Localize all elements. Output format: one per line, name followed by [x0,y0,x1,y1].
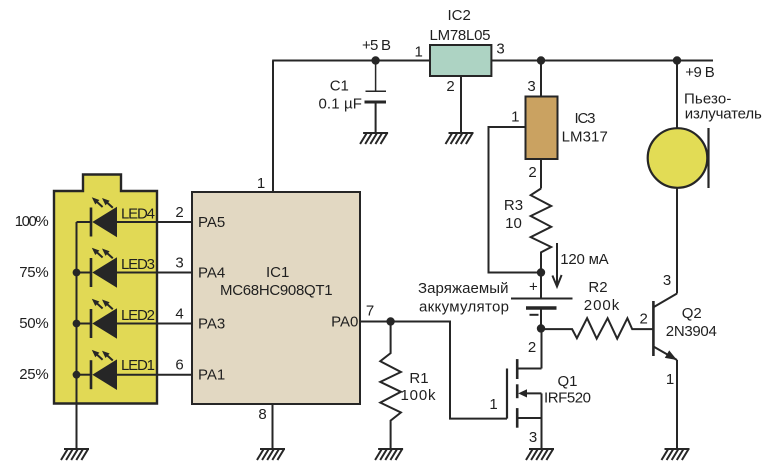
piezo bar [707,128,709,188]
wire cathode rail [76,222,78,449]
IC3 LM317 box [526,97,558,160]
svg-text:3: 3 [175,255,183,272]
svg-text:R3: R3 [504,197,523,214]
ground Q1 [526,449,554,460]
wire LED2 to PA3 [117,323,192,325]
wire IC1 pin1 to +5V rail [272,61,274,193]
svg-text:IC2: IC2 [448,7,471,24]
svg-text:LED2: LED2 [121,307,155,324]
wire battery minus to node [540,308,542,329]
resistor R2 [541,318,653,339]
wire junction to battery plus plate [540,273,542,299]
svg-text:1: 1 [666,371,674,388]
svg-text:2: 2 [446,78,454,95]
wire rail to IC3 pin3 [540,61,542,97]
wire rail to piezo [676,61,678,129]
svg-text:120 мА: 120 мА [560,251,609,268]
svg-text:1: 1 [415,44,423,61]
svg-text:излучатель: излучатель [685,106,762,123]
wire IC3 pin1 loop to battery plus [489,127,542,273]
svg-text:+: + [529,279,538,296]
svg-text:IC3: IC3 [575,110,596,127]
svg-text:LED3: LED3 [121,256,155,273]
rechargeable battery symbol [511,299,573,309]
svg-text:75%: 75% [19,264,48,281]
ground Q2 [662,449,690,460]
node LED3 junction [73,269,81,277]
node battery minus junction [537,324,545,332]
node IC3 top junction [537,56,545,64]
svg-text:4: 4 [175,306,183,323]
node R1 junction [386,317,394,325]
svg-text:0.1 µF: 0.1 µF [318,96,362,113]
node battery plus junction [537,268,545,276]
svg-text:LM317: LM317 [562,129,608,146]
svg-text:200k: 200k [584,297,620,314]
svg-text:PA5: PA5 [198,214,225,231]
svg-text:PA3: PA3 [198,316,225,333]
resistor R1 [380,322,401,450]
Q1 body arrow [518,389,527,397]
svg-text:1: 1 [511,109,519,126]
svg-text:2: 2 [528,339,536,356]
battery minus sign [530,314,539,316]
svg-text:LED1: LED1 [121,357,155,374]
svg-text:10: 10 [505,215,522,232]
piezo buzzer [648,128,708,188]
svg-text:PA0: PA0 [331,314,358,331]
svg-text:25%: 25% [19,366,48,383]
wire LED1 to PA1 [117,374,192,376]
svg-text:+5 В: +5 В [362,37,391,54]
svg-text:R2: R2 [588,279,607,296]
LED1 [77,350,118,390]
svg-text:3: 3 [663,272,671,289]
ground IC2 [446,133,474,144]
capacitor C1 [365,61,387,134]
svg-text:100k: 100k [401,387,437,404]
svg-text:100%: 100% [15,213,49,230]
ground R1 [375,449,403,460]
svg-text:2N3904: 2N3904 [666,323,717,340]
transistor Q2 2N3904 [653,188,677,449]
wire IC3 pin2 to R3 [540,159,542,189]
svg-text:1: 1 [257,175,265,192]
LED3 [77,248,118,288]
svg-text:C1: C1 [330,78,349,95]
wire +5V/+9V rail right of IC2 [491,60,713,62]
svg-text:8: 8 [258,406,266,423]
svg-text:Q1: Q1 [557,373,577,390]
LED4 [77,197,118,237]
svg-text:PA4: PA4 [198,265,225,282]
ground battery [61,449,89,460]
svg-text:Q2: Q2 [682,305,702,322]
svg-text:R1: R1 [409,370,428,387]
node C1 junction [371,56,379,64]
svg-text:6: 6 [175,357,183,374]
Q2 emitter arrow [665,350,677,360]
wire LED3 to PA4 [117,272,192,274]
node piezo junction [673,56,681,64]
svg-text:IC1: IC1 [266,264,289,281]
MOSFET Q1 IRF520 [507,329,542,450]
LED2 [77,299,118,339]
svg-text:7: 7 [366,303,374,320]
svg-text:50%: 50% [19,315,48,332]
svg-text:3: 3 [496,40,504,57]
ground C1 [360,133,388,144]
wire IC2 pin2 to ground [460,76,462,134]
svg-text:Заряжаемый: Заряжаемый [418,280,509,297]
svg-text:LED4: LED4 [121,206,155,223]
svg-text:2: 2 [640,311,648,328]
wire PA0 to R1/Q1 [360,322,507,419]
ground IC1 [257,449,285,460]
wire +5V rail left [272,60,430,62]
svg-text:PA1: PA1 [198,367,225,384]
svg-text:IRF520: IRF520 [544,389,591,406]
resistor R3 [531,189,552,273]
battery pack body [54,175,157,404]
svg-text:1: 1 [489,396,497,413]
svg-text:2: 2 [175,204,183,221]
wire LED4 to PA5 [117,221,192,223]
node LED2 junction [73,320,81,328]
svg-text:+9 В: +9 В [685,64,715,81]
svg-text:3: 3 [527,78,535,95]
IC2 LM78L05 box [430,45,491,76]
wire IC1 pin8 to ground [272,404,274,449]
IC1 MC68HC908QT1 box [192,192,360,404]
svg-text:2: 2 [528,164,536,181]
node LED1 junction [73,371,81,379]
current arrow 120 mA [552,243,561,287]
svg-text:LM78L05: LM78L05 [430,27,491,44]
svg-text:аккумулятор: аккумулятор [419,299,509,316]
svg-text:3: 3 [529,429,537,446]
svg-text:MC68HC908QT1: MC68HC908QT1 [220,282,333,299]
